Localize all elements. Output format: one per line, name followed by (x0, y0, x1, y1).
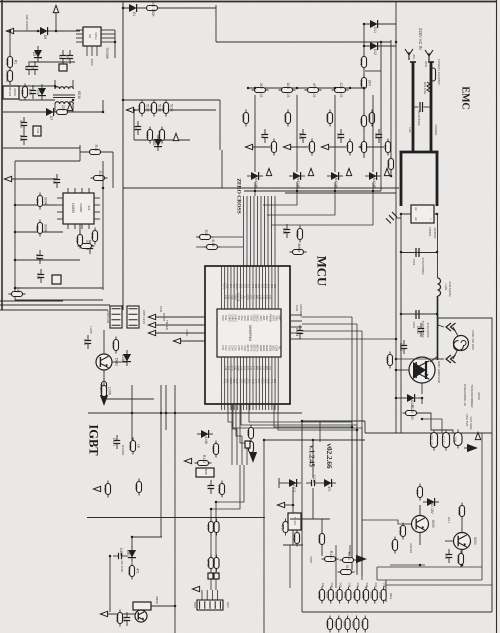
resistor R65 (206, 519, 214, 536)
wire disp feed a (335, 545, 337, 588)
capacitor C133 (444, 549, 452, 563)
ground arrow key 1 (266, 168, 271, 175)
wire MCU to keypad 4 (240, 404, 247, 465)
capacitor C402 (113, 548, 127, 559)
wire dc bus row1 (401, 252, 437, 254)
wire xfmr right (72, 80, 74, 88)
resistor R142 (340, 552, 357, 563)
ic U5 driver (196, 468, 214, 477)
wire keypad drop b (216, 465, 244, 590)
node junction 46 (292, 482, 295, 485)
node junction 30 (400, 251, 403, 254)
capacitor C32 (336, 129, 344, 143)
wire q101 feed (419, 487, 421, 497)
diode D7 (42, 108, 58, 120)
capacitor C16 (83, 335, 91, 349)
wire MCU top pin 18 (274, 266, 276, 309)
wire psu right drop (102, 100, 104, 112)
wire bridge gnd stub (396, 217, 401, 219)
wire U2 left pin 2 (76, 33, 83, 35)
node junction 57 (103, 398, 106, 401)
wire MCU bottom pin 1 (221, 357, 223, 404)
wire x322 drop (321, 519, 323, 532)
wire version box corner (302, 420, 365, 422)
resistor R24 (145, 127, 153, 144)
wire U3 top pin 2 (74, 188, 76, 193)
wire q101 base link (362, 520, 403, 524)
wire MCU to keypad 1 (228, 404, 232, 465)
ground arrow Q3 (101, 396, 108, 405)
wire psu out bus (0, 300, 63, 302)
wire MCU bottom stub 12 (255, 404, 257, 410)
resistor R17 (359, 139, 367, 156)
wire q4 gnd row (108, 613, 135, 615)
wire zc row1 (134, 109, 216, 111)
diode D8 1N4148 (121, 350, 131, 366)
wire comp row5 (15, 299, 103, 301)
wire comp row2 (15, 231, 63, 233)
wire opamp top drop (79, 145, 81, 161)
wire MCU bottom pin 2 (224, 357, 226, 404)
wire MCU bottom pin 12 (255, 357, 257, 404)
capacitor C30 (260, 129, 268, 143)
wire U2 left pin 3 (76, 37, 83, 39)
resistor R15 (359, 75, 372, 92)
wire x313 drop2 (312, 488, 314, 519)
resistor R64 470R (211, 555, 219, 572)
resistor R33 103 (332, 83, 349, 98)
wire key col 1 (254, 95, 256, 172)
wire frame left border (1, 0, 3, 310)
wire x322 drop2 (321, 546, 323, 556)
capacitor C10 (19, 131, 27, 145)
node key arrow 1 (245, 144, 252, 149)
capacitor C111 (306, 475, 320, 486)
wire frame right border (496, 0, 498, 633)
wire psu low rail (3, 111, 103, 113)
node junction 38 (395, 369, 398, 372)
resistor R25 (157, 127, 165, 144)
ic U7 opto (288, 513, 301, 530)
wire MCU bottom pin 4 (230, 357, 232, 404)
wire bridge left out (401, 214, 411, 433)
wire q102 collector (461, 520, 463, 532)
wire T1 core a (53, 94, 75, 96)
node junction 25 (334, 87, 337, 90)
wire disp wire right (376, 567, 378, 580)
diode D30 1N4148 (247, 172, 263, 188)
wire MCU bottom stub 19 (277, 404, 279, 410)
node junction 42 (356, 429, 359, 432)
wire hv diode row1 (364, 23, 396, 25)
wire version box left (301, 421, 303, 612)
node key arrow 2 (283, 144, 290, 149)
wire MCU out extra 2 (278, 404, 357, 430)
wire MCU bottom stub 6 (236, 404, 238, 410)
diode D1 (125, 4, 141, 16)
wire gate down (292, 530, 294, 545)
diode D123 (403, 394, 419, 408)
led LED5 (352, 587, 360, 604)
node junction 41 (351, 426, 354, 429)
wire hv vertical B (390, 40, 392, 176)
diode ZD101 18V (423, 498, 439, 514)
node junction 27 (296, 190, 299, 193)
node igbt vcc arrow (93, 486, 100, 491)
capacitor C14 (36, 269, 44, 283)
wire AC-L (14, 30, 80, 32)
node arrow VSEL (173, 338, 180, 343)
wire mcu out row4 (302, 338, 396, 340)
resistor R18 (99, 379, 107, 396)
wire CN2 pin 3 (211, 590, 213, 600)
wire U3 right pin 5 (94, 197, 100, 199)
transistor IGBT1 (409, 357, 435, 383)
wire q row (390, 564, 425, 566)
wire left section bottom (0, 309, 108, 311)
resistor R142 (342, 616, 350, 633)
wire T1 core b (53, 97, 75, 99)
wire MCU out line 1 (249, 404, 352, 570)
capacitor C122 4742 (416, 323, 424, 337)
diode D12 (366, 42, 382, 55)
wire main vertical C (395, 2, 397, 433)
resistor R134 (415, 484, 423, 501)
resistor R51 (307, 139, 315, 156)
wire q4 feed (132, 537, 162, 548)
node junction 3 (9, 30, 12, 33)
wire display box step (364, 421, 366, 433)
capacitor C102 472 (412, 310, 425, 338)
wire zc vert (133, 110, 135, 140)
wire emc bar right top (428, 61, 434, 63)
capacitor C131 (441, 430, 450, 451)
resistor R26 (197, 230, 214, 240)
node keypad arrow (192, 586, 199, 591)
resistor R28 (295, 226, 303, 243)
node igbt arrow (184, 458, 191, 463)
ground arrow key 3 (346, 168, 351, 175)
wire frame top border (0, 1, 497, 3)
wire MCU bottom pin 14 (261, 357, 263, 404)
diode D9 (36, 27, 52, 39)
resistor R403 (115, 610, 123, 627)
wire fan bottom2 (453, 349, 458, 359)
resistor R23 510K (161, 100, 174, 117)
wire MCU top pin 15 (265, 266, 267, 309)
wire MCU bus vertical 6 (260, 196, 262, 266)
wire MCU bottom pin 6 (236, 357, 238, 404)
wire gate row2 (283, 544, 303, 546)
wire key col 4 (372, 95, 374, 172)
capacitor C124 104 (295, 325, 303, 339)
resistor R32 103 (305, 83, 322, 98)
fan motor FAN1 (454, 336, 469, 351)
node junction 17 (363, 45, 366, 48)
wire comp right link (80, 151, 113, 153)
wire reg drop (441, 419, 443, 433)
node junction 55 (174, 412, 177, 415)
capacitor C13 (35, 250, 43, 264)
node junction 47 (292, 504, 295, 507)
wire U3 left pin 4 (57, 218, 63, 220)
wire MCU top pin 4 (230, 266, 232, 309)
resistor R61 222 (246, 425, 254, 442)
wire comp left bus (14, 161, 16, 300)
wire MCU bus vertical 9 (271, 196, 273, 266)
resistor R9 (9, 287, 26, 297)
wire to top arrow (55, 13, 57, 31)
wire aux bus 193 (285, 192, 396, 194)
wire hv diode row2 (364, 45, 396, 47)
node junction 18 (363, 87, 366, 90)
op-amp U3 LM339 (63, 193, 94, 224)
wire MCU bottom pin 5 (233, 357, 235, 404)
wire zc to MCU b (196, 246, 243, 248)
ground arrow 7805 (475, 432, 480, 439)
wire key col 1 to MCU (254, 182, 256, 196)
connector CN8 fan (110, 306, 122, 328)
wire igbt collector (430, 356, 438, 362)
wire emc bar left top (410, 61, 416, 63)
resistor R12 (75, 232, 83, 249)
wire MCU bottom stub 3 (227, 404, 229, 410)
node junction 9 (14, 231, 17, 234)
wire mov column (363, 24, 365, 158)
wire U2 right pin 6 (101, 33, 115, 35)
wire igbt emitter (421, 383, 423, 394)
diode D11 (366, 20, 382, 33)
wire U2 bottom pin 1 (86, 46, 88, 56)
wire zc row2 (134, 139, 190, 141)
resistor R128 (134, 479, 142, 496)
wire MCU top pin 13 (258, 266, 260, 309)
node q4 arrow (100, 611, 107, 616)
resistor R62 222 (246, 439, 254, 456)
wire MCU left pin TIGBT (155, 324, 205, 326)
wire zc right drop2 (221, 150, 223, 188)
resistor R16 (359, 113, 367, 130)
wire top drop (215, 5, 217, 42)
capacitor C121 104 (112, 435, 120, 449)
wire psu bottom rail (3, 147, 80, 149)
node key arrow 4 (359, 144, 366, 149)
wire U2 bottom pin 2 (91, 46, 93, 56)
node junction 51 (210, 508, 213, 511)
resistor R124 (217, 481, 225, 498)
diode bridge DB101 (411, 205, 434, 223)
wire MCU top pin 17 (271, 266, 273, 309)
node junction 53 (160, 412, 163, 415)
node junction 52 (215, 501, 218, 504)
resistor R123 (195, 455, 212, 466)
wire MCU bottom pin 8 (243, 357, 245, 404)
wire MCU bottom stub 5 (233, 404, 235, 410)
node junction 4 (114, 41, 117, 44)
resistor R50 (269, 139, 277, 156)
wire mcu out row3 (302, 330, 362, 332)
resistor R41 680K (283, 110, 291, 127)
resistor R20 (99, 383, 112, 400)
node junction 22 (247, 87, 250, 90)
crystal X2 4MHz (290, 243, 307, 254)
wire disp feed b (349, 545, 351, 556)
resistor R402 (127, 563, 140, 580)
wire igbt drop b (160, 385, 162, 537)
wire MCU bus vertical 10 (274, 196, 276, 266)
wire igbt branch (104, 398, 154, 400)
wire choke out (437, 296, 439, 360)
resistor R1 (5, 54, 18, 71)
node junction 48 (109, 555, 112, 558)
wire MCU bottom stub 18 (274, 404, 276, 410)
resistor R7 (35, 193, 48, 210)
node junction 29 (372, 190, 375, 193)
wire MCU bottom pin 10 (249, 357, 251, 404)
resistor R8 (35, 220, 48, 237)
wire U2 right pin 7 (101, 37, 115, 39)
wire MCU bottom stub 7 (239, 404, 241, 410)
resistor R115 (317, 531, 325, 548)
wire q4 out (151, 605, 175, 607)
wire MCU out line 2 (241, 404, 357, 575)
wire choke left leg (400, 152, 403, 206)
wire U2 left pin 4 (76, 41, 83, 43)
wire reg feed (422, 418, 442, 420)
node key arrow 3 (321, 144, 328, 149)
wire U3 bottom pin 2 (74, 224, 76, 229)
ground arrow key 4 (384, 168, 389, 175)
node junction 26 (254, 190, 257, 193)
node AC plug prong N (425, 50, 433, 61)
wire emitter down (419, 398, 422, 404)
led LED2 (326, 587, 334, 604)
ic U4 small (52, 275, 61, 284)
node arrow FAN (148, 314, 155, 319)
node IGBT1 big triangle (413, 362, 426, 379)
wire 5v wire (464, 447, 468, 449)
node junction 23 (254, 87, 257, 90)
diode D31 1N4148 (289, 172, 305, 188)
transistor Q3 (96, 354, 119, 370)
wire MCU bottom pin 13 (258, 357, 260, 404)
wire comp in (12, 178, 57, 180)
wire MCU bus vertical 4 (253, 196, 255, 266)
capacitor C31 (298, 129, 306, 143)
wire MCU bus vertical 5 (257, 196, 259, 266)
node junction 10 (14, 259, 17, 262)
wire MCU top pin 10 (249, 266, 251, 309)
ground arrow key 2 (308, 168, 313, 175)
wire MCU bus vertical 8 (267, 196, 269, 266)
wire q101 emitter (419, 533, 421, 545)
wire MCU right pin 5 (290, 338, 302, 340)
varistor RV2 (386, 156, 394, 173)
diode D21 (152, 135, 162, 151)
wire bundle down c (361, 331, 363, 576)
node AC-L input arrow (6, 28, 13, 33)
wire psu left rail (9, 31, 11, 85)
wire display inner h2 (377, 579, 482, 581)
wire MCU right pin 4 (290, 332, 302, 334)
wire MCU top pin 6 (236, 266, 238, 309)
node junction 44 (263, 439, 266, 442)
led LED7 (370, 587, 378, 604)
capacitor C132 (453, 430, 462, 449)
node junction 36 (395, 338, 398, 341)
wire MCU bus vertical 7 (264, 196, 266, 266)
capacitor C9 400V (19, 117, 27, 131)
resistor R132 (390, 537, 398, 554)
resistor R19 (111, 337, 119, 354)
wire MCU bottom pin 18 (274, 357, 276, 404)
wire vcc bus 517 (87, 517, 265, 519)
capacitor C8 (28, 85, 36, 99)
node junction 19 (380, 41, 383, 44)
node junction 50 (174, 605, 177, 608)
fuse F1 (431, 68, 436, 81)
resistor R122 51R (211, 441, 219, 458)
wire gate down2 (289, 545, 291, 588)
wire bridge right out (434, 214, 438, 278)
wire MCU top pin 19 (277, 266, 279, 309)
led LED8 (378, 587, 386, 604)
wire MCU bottom pin 7 (239, 357, 241, 404)
wire MCU bottom pin 9 (246, 357, 248, 404)
wire MCU bus vertical 2 (246, 196, 248, 266)
wire U3 left pin 2 (57, 204, 63, 206)
capacitor C62 (208, 573, 213, 579)
wire mcu out row1 (302, 316, 352, 318)
wire fan top (438, 318, 444, 327)
wire MCU left pin TM2EN (155, 332, 205, 334)
wire U3 right pin 8 (94, 218, 100, 220)
wire fan bottom feed (396, 358, 435, 360)
resistor R11 (90, 228, 98, 245)
wire key col 3 (334, 95, 336, 172)
wire U3 left pin 3 (57, 211, 63, 213)
capacitor CX1 472/275VAC (413, 102, 431, 126)
wire key cell 1 (253, 146, 270, 148)
node junction 49 (131, 536, 134, 539)
capacitor C21 103 (133, 121, 141, 135)
node junction 61 (349, 87, 352, 90)
node junction 8 (14, 204, 17, 207)
wire fan top2 (453, 327, 458, 336)
wire gate arrow wire (285, 504, 293, 506)
wire x313 drop (312, 440, 314, 478)
wire MCU top pin 12 (255, 266, 257, 309)
connector CN2 keypad (197, 600, 223, 610)
wire MCU bottom pin 19 (277, 357, 279, 404)
capacitor C122b (206, 480, 214, 494)
wire MCU bottom stub 11 (252, 404, 254, 410)
wire key cell 3 (329, 146, 346, 148)
led LED1 (317, 587, 325, 604)
node junction 54 (165, 412, 168, 415)
resistor R113 (280, 519, 288, 536)
resistor R126 51R (385, 352, 393, 369)
wire MCU bottom stub 9 (246, 404, 248, 410)
wire MCU right pin 2 (290, 320, 302, 322)
capacitor C6 (24, 61, 32, 75)
wire bundle down a (351, 317, 353, 570)
wire MCU bottom stub 16 (268, 404, 270, 410)
wire emc bar left (412, 62, 415, 151)
wire gate row3 (290, 518, 330, 520)
wire U2 right pin 5 (101, 29, 115, 31)
wire MCU bottom pin 16 (268, 357, 270, 404)
